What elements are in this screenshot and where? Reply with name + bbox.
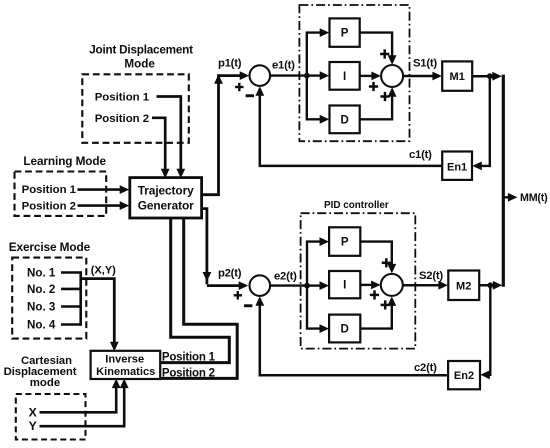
svg-text:Position 1: Position 1 <box>22 184 77 196</box>
svg-text:Kinematics: Kinematics <box>96 366 155 378</box>
svg-text:Cartesian: Cartesian <box>21 355 72 367</box>
svg-text:Inverse: Inverse <box>105 353 144 365</box>
wire Position 1 (learning mode) to Trajectory Generator <box>78 188 122 191</box>
svg-text:En1: En1 <box>447 162 467 174</box>
wire I2 to PID sum 2 <box>360 284 374 286</box>
junction dot M2 output <box>487 282 493 288</box>
wire M2 output to main output line <box>479 284 498 287</box>
dashed box Cartesian Displacement mode <box>16 394 86 440</box>
svg-text:S1(t): S1(t) <box>413 58 437 70</box>
label plus PID sum 1 bottom <box>380 95 389 98</box>
svg-text:No. 1: No. 1 <box>27 267 56 280</box>
svg-text:e1(t): e1(t) <box>272 60 295 72</box>
wire branch to D1 <box>307 76 323 120</box>
wire feedback from M2 node to En2 <box>487 285 491 375</box>
block M1 <box>442 61 472 90</box>
dash-dot box PID controller 1 <box>299 5 409 141</box>
wire I1 to PID sum 1 <box>360 75 375 77</box>
wire P1 to PID sum 1 <box>360 33 392 59</box>
svg-text:P: P <box>341 28 349 40</box>
wire exercise selector bus <box>61 271 81 274</box>
svg-text:Position 2: Position 2 <box>95 113 149 125</box>
label plus PID sum 1 left <box>369 85 378 88</box>
wire branch to I2 <box>307 284 322 286</box>
wire Position 2 (learning mode) to Trajectory Generator <box>78 204 122 207</box>
wire branch to I1 <box>307 74 323 76</box>
junction dot M1 output <box>487 73 493 79</box>
svg-text:D: D <box>341 324 349 336</box>
svg-text:No. 4: No. 4 <box>27 319 56 332</box>
summing junction SJ2 <box>249 275 270 296</box>
svg-text:Exercise Mode: Exercise Mode <box>9 240 91 254</box>
wire c1(t) from En1 to SJ1 <box>260 92 442 166</box>
label plus SJ1 <box>235 86 243 88</box>
svg-text:Mode: Mode <box>124 58 155 71</box>
wire MM(t) output <box>503 196 510 199</box>
svg-text:Generator: Generator <box>138 199 194 213</box>
svg-text:No. 2: No. 2 <box>27 283 55 296</box>
svg-text:(X,Y): (X,Y) <box>91 264 116 276</box>
svg-text:Trajectory: Trajectory <box>138 183 194 197</box>
label minus SJ1 <box>246 94 254 97</box>
dashed box Learning Mode <box>15 172 107 216</box>
wire branch to P2 <box>307 242 322 286</box>
wire c2(t) from En2 to SJ2 <box>260 302 448 376</box>
block En1 <box>442 152 472 180</box>
svg-text:mode: mode <box>30 377 60 389</box>
block I1 <box>330 62 360 90</box>
svg-text:Position 2: Position 2 <box>162 367 215 379</box>
wire feedback from M1 node to En1 <box>479 76 490 166</box>
svg-text:X: X <box>29 405 38 419</box>
wire branch to D2 <box>307 286 322 329</box>
junction dot e1 <box>304 73 310 79</box>
dashed box Exercise Mode <box>12 258 86 339</box>
svg-text:PID controller: PID controller <box>324 200 389 211</box>
wire P2 to PID sum 2 <box>360 242 392 267</box>
svg-text:M2: M2 <box>456 280 471 292</box>
summing junction PID sum 2 <box>381 274 403 296</box>
wire M1 output to main output line <box>472 75 497 78</box>
label plus PID sum 2 top <box>382 262 391 265</box>
svg-text:No. 3: No. 3 <box>27 301 56 314</box>
block D2 <box>329 315 360 343</box>
block M2 <box>448 271 479 301</box>
label plus PID sum 1 top <box>380 53 389 56</box>
block P1 <box>330 18 360 46</box>
wire (X,Y) to Inverse Kinematics <box>81 279 115 344</box>
svg-text:c1(t): c1(t) <box>409 149 432 161</box>
dashed box Joint Displacement Mode <box>82 74 189 143</box>
label plus PID sum 2 left <box>370 294 379 297</box>
svg-text:D: D <box>340 114 348 126</box>
svg-text:p1(t): p1(t) <box>218 57 242 69</box>
block D1 <box>330 106 360 134</box>
svg-text:c2(t): c2(t) <box>414 362 437 374</box>
svg-text:e2(t): e2(t) <box>274 270 297 282</box>
svg-text:P: P <box>341 237 349 249</box>
block Inverse Kinematics <box>91 351 161 379</box>
block Trajectory Generator <box>130 178 202 218</box>
svg-text:Learning Mode: Learning Mode <box>23 154 106 168</box>
block I2 <box>329 271 360 298</box>
svg-text:MM(t): MM(t) <box>520 192 548 204</box>
wire X to Inverse Kinematics <box>40 384 117 412</box>
svg-text:I: I <box>343 71 346 83</box>
svg-text:En2: En2 <box>454 370 474 382</box>
wire Position 2 return (Inverse Kinematics to Trajectory Generator) <box>159 216 237 378</box>
wire p1(t) from Trajectory Generator to summing junction SJ1 <box>200 76 243 195</box>
wire e2(t) from SJ2 to PID branch node <box>270 284 307 286</box>
wire D1 to PID sum 1 <box>360 94 392 120</box>
svg-text:S2(t): S2(t) <box>419 270 443 282</box>
svg-text:I: I <box>343 280 346 292</box>
wire e1(t) from SJ1 to PID branch node <box>270 74 307 76</box>
junction dot e2 <box>304 283 310 289</box>
svg-text:Joint Displacement: Joint Displacement <box>89 43 193 56</box>
summing junction SJ1 <box>249 65 270 86</box>
wire Position 1 (joint mode) to Trajectory Generator <box>157 97 181 171</box>
block P2 <box>329 227 360 256</box>
label plus PID sum 2 bottom <box>381 304 390 307</box>
wire p2(t) from Trajectory Generator to summing junction SJ2 <box>200 209 207 285</box>
block En2 <box>448 361 480 389</box>
wire Position 1 return (Inverse Kinematics to Trajectory Generator) <box>159 216 229 363</box>
svg-text:Position 1: Position 1 <box>95 92 150 104</box>
summing junction PID sum 1 <box>381 65 403 87</box>
dash-dot box PID controller 2 <box>301 213 416 348</box>
label minus SJ2 <box>244 304 252 307</box>
label plus SJ2 <box>234 294 242 296</box>
svg-text:Position 1: Position 1 <box>162 352 216 364</box>
wire Y to Inverse Kinematics <box>40 384 125 426</box>
wire Position 2 (joint mode) to Trajectory Generator <box>152 118 165 171</box>
svg-text:M1: M1 <box>450 71 465 83</box>
svg-text:p2(t): p2(t) <box>218 267 242 279</box>
wire branch to P1 <box>307 33 323 76</box>
svg-text:Y: Y <box>29 419 37 433</box>
wire D2 to PID sum 2 <box>360 303 392 329</box>
wire S1(t) from PID sum 1 to M1 <box>403 75 435 78</box>
svg-text:Position 2: Position 2 <box>22 201 76 213</box>
wire S2(t) from PID sum 2 to M2 <box>403 284 441 287</box>
wire main output line <box>502 75 505 287</box>
